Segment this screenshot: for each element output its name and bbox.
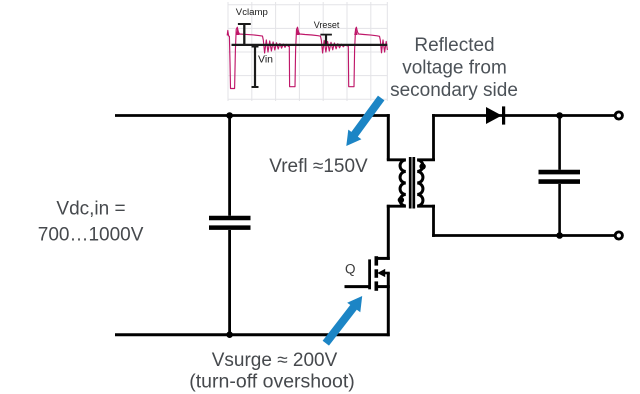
transformer T1 primary winding bbox=[400, 160, 406, 206]
node: input cap top junction bbox=[226, 112, 233, 119]
wire: transformer primary bottom to MOSFET drain bbox=[387, 205, 390, 260]
transformer primary polarity dot bbox=[398, 197, 404, 203]
wire: secondary vertical to top rail bbox=[432, 114, 435, 160]
svg-text:(turn-off overshoot): (turn-off overshoot) bbox=[189, 371, 354, 393]
wire: transformer secondary top connection bbox=[417, 158, 435, 161]
svg-text:Vrefl ≈150V: Vrefl ≈150V bbox=[269, 156, 368, 177]
transistor Q gate bar bbox=[368, 259, 371, 289]
capacitor Cin leads bbox=[228, 116, 231, 335]
transformer core bbox=[410, 157, 414, 209]
capacitor Cout leads bbox=[558, 116, 561, 236]
transistor Q body arrow bbox=[377, 269, 390, 277]
scope inset grid bbox=[228, 2, 387, 101]
wire: secondary top rail bbox=[432, 114, 614, 117]
label: Vsurge note bbox=[189, 350, 354, 393]
callout arrow: surge voltage bbox=[326, 296, 362, 343]
svg-text:Q: Q bbox=[345, 262, 356, 277]
wire: primary top rail bbox=[115, 114, 390, 117]
svg-text:secondary side: secondary side bbox=[390, 80, 518, 101]
node: input cap bottom junction bbox=[226, 331, 233, 338]
svg-text:Vreset: Vreset bbox=[314, 20, 340, 30]
svg-text:700…1000V: 700…1000V bbox=[38, 224, 144, 245]
label: reflected voltage note bbox=[390, 35, 518, 101]
svg-text:voltage from: voltage from bbox=[402, 58, 507, 79]
callout arrow: reflected voltage bbox=[346, 98, 381, 146]
label: Vdc,in bbox=[38, 199, 144, 246]
svg-text:Vclamp: Vclamp bbox=[236, 7, 268, 18]
transistor Q drain stub bbox=[375, 257, 390, 260]
wire: secondary bottom rail bbox=[432, 234, 614, 237]
transistor Q channel bars bbox=[374, 256, 378, 291]
transformer secondary polarity dot bbox=[419, 163, 425, 169]
Vclamp dimension marker bbox=[238, 24, 251, 44]
svg-text:Reflected: Reflected bbox=[414, 35, 494, 56]
transformer T1 secondary winding bbox=[417, 160, 423, 206]
Vreset dimension marker bbox=[320, 35, 332, 44]
node: output cap bottom junction bbox=[556, 232, 563, 239]
diode D1 bbox=[486, 106, 504, 124]
node: output cap top junction bbox=[556, 112, 563, 119]
wire: transformer secondary bottom connection bbox=[417, 205, 435, 208]
terminal: output positive bbox=[615, 112, 622, 119]
wire: primary bottom rail bbox=[115, 333, 390, 336]
wire: secondary bottom vertical bbox=[432, 205, 435, 237]
wire: transformer primary top connection bbox=[387, 158, 406, 161]
scope baseline bbox=[232, 44, 388, 46]
scope waveform spike peaks bbox=[236, 27, 358, 35]
wire: MOSFET source to bottom rail bbox=[387, 273, 390, 336]
Vin dimension marker bbox=[252, 46, 259, 87]
svg-text:Vsurge ≈ 200V: Vsurge ≈ 200V bbox=[212, 350, 338, 371]
capacitor Cin plates bbox=[209, 218, 251, 228]
svg-text:Vdc,in =: Vdc,in = bbox=[56, 199, 125, 220]
capacitor Cout plates bbox=[539, 172, 581, 182]
wire: transformer primary bottom connection bbox=[387, 205, 406, 208]
transistor Q gate lead bbox=[345, 285, 371, 288]
terminal: output negative bbox=[615, 232, 622, 239]
scope waveform Vds bbox=[227, 27, 387, 88]
wire: primary vertical to transformer bbox=[387, 114, 390, 160]
transistor Q source stub bbox=[375, 285, 390, 288]
svg-text:Vin: Vin bbox=[258, 54, 273, 66]
